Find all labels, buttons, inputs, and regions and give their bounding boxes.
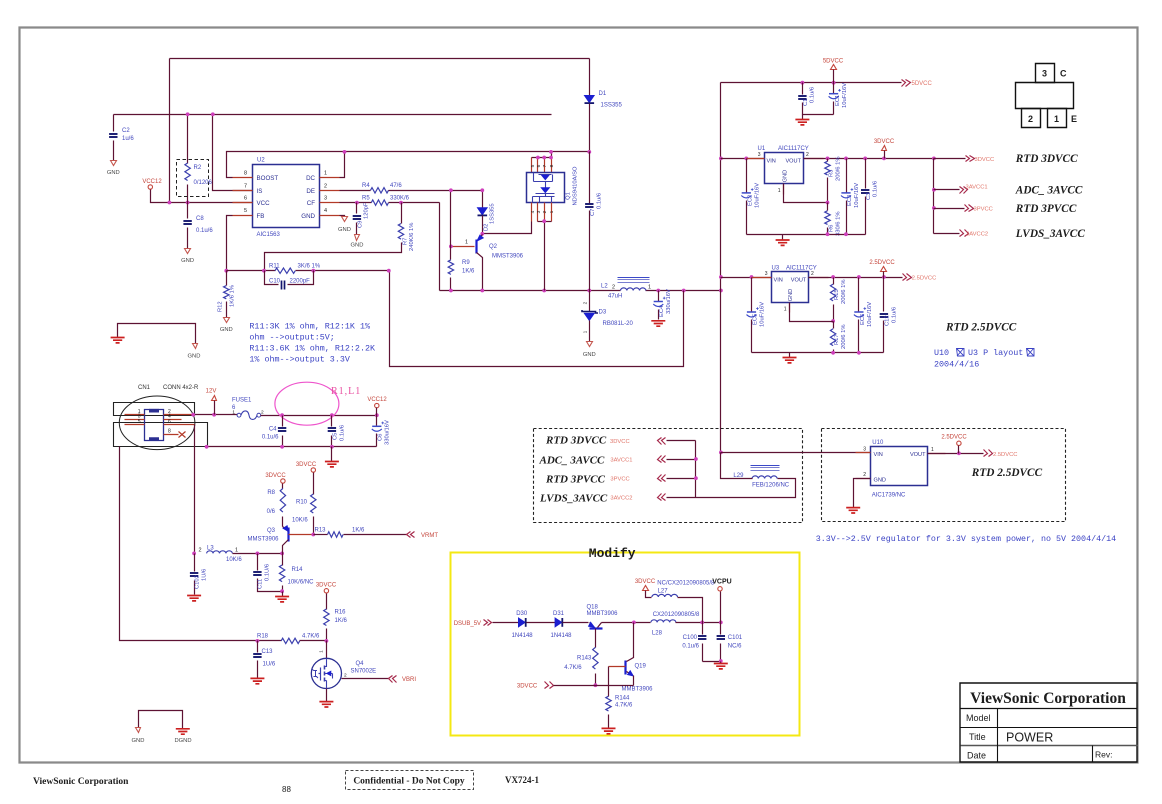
port 3DVCC out [934,156,995,163]
svg-text:3K/6 1%: 3K/6 1% [298,263,321,269]
svg-text:4: 4 [324,208,327,214]
svg-text:3.3V-->2.5V regulator for 3.3V: 3.3V-->2.5V regulator for 3.3V system po… [816,534,1116,544]
port 3AVCC1 out [934,184,988,193]
svg-text:R15: R15 [834,289,840,300]
transistor Q3 [248,526,314,554]
svg-text:0.1u/6: 0.1u/6 [682,644,699,650]
svg-text:RTD 3DVCC: RTD 3DVCC [545,435,607,447]
svg-text:ohm -->output:5V;: ohm -->output:5V; [249,333,334,343]
svg-text:L3: L3 [207,546,214,552]
svg-text:VCC12: VCC12 [367,397,387,403]
svg-text:3AVCC2: 3AVCC2 [610,496,632,502]
inductor L28 [651,612,723,637]
svg-text:VIN: VIN [767,158,776,164]
svg-text:7: 7 [542,164,548,167]
svg-text:FB: FB [257,213,265,220]
svg-text:8: 8 [168,429,171,435]
svg-text:EC5: EC5 [753,314,759,325]
svg-text:3DVCC: 3DVCC [265,473,286,479]
svg-text:VOUT: VOUT [910,452,926,458]
svg-text:2.5DVCC: 2.5DVCC [941,435,967,441]
svg-text:RTD 3DVCC: RTD 3DVCC [1015,153,1078,165]
resistor R17 [830,322,847,353]
note layout date [934,348,1034,370]
capacitor C4 [262,416,286,447]
wire fused 12V rail [261,415,377,417]
svg-text:10uF/16V: 10uF/16V [867,302,873,327]
svg-text:C4: C4 [269,427,277,433]
svg-text:2: 2 [863,472,866,478]
svg-text:R11: R11 [269,263,280,269]
svg-text:EC2: EC2 [748,195,754,206]
diode D31 [551,611,589,639]
ground earth at C5 rail [325,447,339,467]
svg-text:R3: R3 [829,170,835,177]
svg-text:C101: C101 [728,635,743,641]
capacitor EC3 [841,159,860,235]
mosfet Q1 NDS9410A/SO [527,150,579,291]
resistor R12 [218,271,236,318]
svg-text:C10: C10 [269,278,281,284]
svg-text:R6: R6 [829,225,835,232]
svg-text:5: 5 [244,208,247,214]
resistor R8 [267,484,286,527]
svg-text:ADC_ 3AVCC: ADC_ 3AVCC [1015,185,1083,197]
svg-text:R4: R4 [362,183,370,189]
inductor L27 [652,581,715,623]
svg-text:2: 2 [344,673,347,679]
port 2.5DVCC out U3 [903,274,937,282]
capacitor C11 [253,554,282,592]
svg-text:1: 1 [232,410,235,416]
svg-text:VCC: VCC [257,200,271,207]
svg-text:MMBT3906: MMBT3906 [587,611,619,617]
svg-text:BOOST: BOOST [257,175,279,182]
ic U3 AIC1117CY [752,266,829,313]
svg-text:ViewSonic Corporation: ViewSonic Corporation [33,777,129,787]
svg-text:200/6 1%: 200/6 1% [841,280,847,305]
svg-text:1N4148: 1N4148 [551,633,573,639]
svg-text:RTD 2.5DVCC: RTD 2.5DVCC [945,322,1017,334]
title block [960,683,1138,763]
resistor R6 [825,203,842,237]
ground GND at C9 [351,235,364,249]
svg-text:2: 2 [198,548,201,554]
svg-text:AIC1117CY: AIC1117CY [778,146,809,152]
svg-text:MMST3906: MMST3906 [248,537,280,543]
svg-text:R14: R14 [292,567,304,573]
svg-text:330u/16V: 330u/16V [666,289,672,314]
svg-text:1: 1 [549,210,555,213]
svg-text:ADC_ 3AVCC: ADC_ 3AVCC [539,455,606,467]
svg-text:3AVCC2: 3AVCC2 [966,231,988,237]
svg-text:RTD 2.5DVCC: RTD 2.5DVCC [971,467,1043,479]
power 2.5DVCC at U10 [941,435,967,454]
svg-text:R144: R144 [615,696,630,702]
svg-text:3DVCC: 3DVCC [296,462,317,468]
svg-text:1: 1 [582,330,588,333]
port VRMT [407,532,439,540]
svg-text:3DVCC: 3DVCC [635,579,656,585]
svg-text:GND: GND [583,352,596,358]
wire 12V feed [194,414,238,416]
svg-text:1N4148: 1N4148 [512,633,534,639]
svg-text:0.1u/6: 0.1u/6 [262,435,279,441]
svg-text:VIN: VIN [774,278,783,284]
svg-text:10K/6: 10K/6 [226,557,242,563]
svg-text:10K/6: 10K/6 [292,518,308,524]
svg-text:C3: C3 [866,193,872,200]
svg-text:200/6 1%: 200/6 1% [841,325,847,350]
svg-text:R10: R10 [296,500,308,506]
power 3DVCC at R8 [265,473,286,483]
capacitor C7 [585,152,602,291]
svg-text:Q3: Q3 [267,528,276,534]
svg-text:DSUB_5V: DSUB_5V [454,621,481,627]
svg-text:0.1u/6: 0.1u/6 [340,425,346,441]
capacitor C101 [717,623,743,662]
ground GND at R12 [220,318,233,334]
port 3AVCC1 in [610,456,695,464]
svg-text:2.5DVCC: 2.5DVCC [912,276,936,282]
confidential stamp [346,771,474,790]
port 2.5DVCC out U10 [984,450,1018,458]
power 3DVCC at L27 [635,579,656,598]
svg-text:DGND: DGND [174,738,191,744]
capacitor C3 [861,159,879,235]
note text output options [249,322,376,365]
capacitor C100 [682,623,706,662]
svg-text:R8: R8 [267,490,275,496]
svg-text:VX724-1: VX724-1 [505,775,539,785]
ground earth at C101 [714,662,728,669]
ground GND at C8 [181,249,194,265]
modify box [451,546,800,736]
wire output rail [440,290,621,292]
svg-text:C9: C9 [358,221,364,228]
svg-text:Q1: Q1 [566,192,572,200]
svg-text:GND: GND [132,738,145,744]
svg-text:3: 3 [324,196,327,202]
svg-text:C5: C5 [333,433,339,440]
port VBRI [389,676,417,684]
svg-text:C12: C12 [885,315,891,326]
svg-text:3PVCC: 3PVCC [974,207,993,213]
svg-text:8: 8 [549,164,555,167]
svg-text:2004/4/16: 2004/4/16 [934,360,979,370]
inductor L3 [192,546,284,563]
wire 3V distribution bus [933,159,935,234]
power VCPU [712,579,731,623]
wire L29 loop [696,479,796,498]
svg-text:1SS355: 1SS355 [601,103,623,109]
resistor R18 [256,634,329,644]
diode D2 [478,188,496,233]
svg-text:1U/6: 1U/6 [263,662,276,668]
diode D30 [512,611,556,639]
port 3AVCC2 out [934,230,989,238]
svg-text:D3: D3 [599,310,607,316]
svg-text:DC: DC [306,175,315,182]
capacitor C12 [880,278,898,353]
wire U1 gnd rail [747,234,866,236]
svg-text:3: 3 [1042,69,1047,79]
svg-text:1SS355: 1SS355 [490,203,496,224]
svg-text:EC4: EC4 [659,305,665,317]
svg-text:1K/6: 1K/6 [462,269,475,275]
mosfet Q4 SN7002E [311,641,388,708]
svg-text:AIC1563: AIC1563 [257,232,281,238]
svg-text:1K/6: 1K/6 [352,527,365,533]
svg-text:1K/6 1%: 1K/6 1% [230,285,236,307]
svg-text:R7: R7 [403,238,409,245]
svg-text:LVDS_3AVCC: LVDS_3AVCC [1015,228,1086,240]
resistor R144 [606,696,633,728]
wire U1 output rail [804,158,934,160]
svg-text:5DVCC: 5DVCC [912,81,933,87]
resistor R5 [340,195,440,205]
ground earth at R14 [275,592,289,602]
svg-text:0.1u/6: 0.1u/6 [873,181,879,197]
svg-text:CF: CF [307,200,315,207]
svg-text:330u/16V: 330u/16V [385,420,391,445]
port 5DVCC out [902,80,933,88]
svg-text:12V: 12V [206,389,217,395]
svg-text:Date: Date [967,751,986,761]
svg-text:U3 P layout: U3 P layout [968,348,1023,358]
svg-text:MMBT3906: MMBT3906 [622,687,654,693]
power 3DVCC at R10 [296,462,317,472]
ground GND at C2 [107,161,120,177]
svg-text:1: 1 [1054,114,1059,124]
svg-text:R11:3.6K 1% ohm, R12:2.2K: R11:3.6K 1% ohm, R12:2.2K [249,344,376,354]
power VCC12 [142,179,169,203]
transistor Q19 [609,623,654,697]
wire U3 gnd pin [790,303,834,322]
svg-text:4.7K/6: 4.7K/6 [302,634,320,640]
wire CN1 pin6 drop [194,425,196,554]
resistor R7 [265,203,416,271]
resistor R9 [448,188,475,290]
svg-text:VBRI: VBRI [402,677,416,683]
svg-text:8: 8 [244,171,247,177]
svg-text:R13: R13 [315,527,327,533]
svg-text:1: 1 [324,171,327,177]
svg-text:C102: C102 [195,575,201,589]
svg-text:C100: C100 [683,635,698,641]
svg-text:1% ohm-->output 3.3V: 1% ohm-->output 3.3V [249,355,350,365]
wire U10 output [928,453,984,455]
svg-text:GND: GND [788,289,794,301]
capacitor C5 [328,416,346,447]
wire CF to output rail [439,203,441,291]
svg-text:VCC12: VCC12 [142,179,162,185]
svg-text:2: 2 [324,183,327,189]
svg-text:2200pF: 2200pF [290,278,311,284]
svg-text:240K/6 1%: 240K/6 1% [409,223,415,251]
svg-text:NC/CX2012090805/8: NC/CX2012090805/8 [657,581,715,587]
ground earth at R144 [602,728,616,733]
svg-text:1: 1 [235,548,238,554]
svg-text:Modify: Modify [589,546,636,561]
svg-text:0.1u/6: 0.1u/6 [196,228,213,234]
resistor R13 [314,527,407,537]
wire 5V vertical bus [720,83,722,453]
svg-text:GND: GND [301,213,315,220]
capacitor C10 [265,271,314,290]
svg-text:C7: C7 [590,209,596,216]
svg-text:R17: R17 [834,334,840,345]
svg-text:10uF/16V: 10uF/16V [755,183,761,208]
svg-text:1u/6: 1u/6 [122,136,134,142]
svg-text:GND: GND [188,354,201,360]
svg-text:U2: U2 [257,158,265,164]
ground GND at D3 [583,342,596,359]
svg-text:Confidential - Do Not Copy: Confidential - Do Not Copy [353,777,465,787]
svg-text:Q4: Q4 [356,661,365,667]
capacitor C13 [250,641,275,684]
svg-text:2: 2 [612,285,615,291]
port 3PVCC out [934,205,993,213]
ground GND DGND tie [132,711,192,745]
svg-text:FUSE1: FUSE1 [232,398,252,404]
svg-text:330/6 1%: 330/6 1% [836,212,842,237]
svg-text:5: 5 [138,419,141,425]
svg-text:L28: L28 [652,631,663,637]
svg-text:3: 3 [758,152,761,158]
svg-text:2: 2 [811,271,814,277]
wire feedback loop [390,271,684,367]
svg-text:Q18: Q18 [587,605,599,611]
svg-text:3DVCC: 3DVCC [874,139,895,145]
svg-text:U10: U10 [872,440,884,446]
svg-text:NDS9410A/SO: NDS9410A/SO [573,166,579,205]
wire input tie bus [695,441,697,498]
port DSUB_5V in [454,620,519,628]
wire U3 gnd rail [752,352,884,354]
svg-text:0.1u/6: 0.1u/6 [810,87,816,103]
wire caps gnd tie [703,661,721,663]
svg-text:R12: R12 [218,301,224,312]
wire vertical to VCC line [169,59,171,203]
svg-text:Q2: Q2 [489,244,498,250]
svg-text:CONN 4x2-R: CONN 4x2-R [163,385,199,391]
wire Q18 rail [602,622,651,624]
wire VCC net [170,202,253,204]
capacitor C2 [109,115,134,161]
svg-text:POWER: POWER [1006,731,1053,745]
wire U1 input [721,158,765,160]
wire BOOST loop [227,152,590,178]
power 12V [206,389,217,415]
svg-text:4.7K/6: 4.7K/6 [564,665,582,671]
port 3DVCC in modify [517,682,634,690]
svg-text:2: 2 [582,301,588,304]
power 2.5DVCC at U3 [869,260,895,278]
wire CN1 left drop [120,447,282,641]
capacitor EC2 [741,159,760,235]
resistor R143 [564,647,598,687]
resistor R15 [830,278,847,323]
svg-text:IS: IS [257,188,263,195]
svg-text:MMST3906: MMST3906 [492,254,524,260]
svg-text:RTD 3PVCC: RTD 3PVCC [1015,203,1077,215]
svg-text:ViewSonic Corporation: ViewSonic Corporation [970,690,1126,707]
svg-text:D1: D1 [599,91,607,97]
ground earth at EC4 [651,321,665,326]
svg-text:0.1U/6: 0.1U/6 [265,564,271,581]
svg-text:GND: GND [220,327,233,333]
transistor Q2 [449,235,524,291]
svg-text:0.1u/6: 0.1u/6 [892,307,898,323]
svg-text:5DVCC: 5DVCC [823,59,844,65]
svg-text:U10: U10 [934,348,949,358]
capacitor C6 [372,416,391,447]
dashed box 2.5V regulator [822,429,1066,522]
svg-text:1U/6: 1U/6 [202,569,208,581]
svg-text:47uH: 47uH [608,294,622,300]
svg-text:Rev:: Rev: [1095,750,1112,760]
capacitor C1 [798,83,833,115]
wire U3 output rail [809,277,903,279]
fuse FUSE1 [232,398,264,420]
resistor R2 [177,112,213,202]
svg-text:R11:3K 1% ohm, R12:1K 1%: R11:3K 1% ohm, R12:1K 1% [249,322,371,332]
svg-text:0/6: 0/6 [267,509,276,515]
ground earth at U3 [783,353,797,363]
svg-text:2: 2 [261,410,264,416]
svg-text:GND: GND [107,170,120,176]
svg-text:7: 7 [244,183,247,189]
ground earth at U10 [846,508,860,513]
ground earth at C1 [795,115,809,125]
svg-text:2: 2 [1028,114,1033,124]
inductor L29 [721,453,790,489]
connector CN1 CONN 4x2-R [114,385,208,450]
power 5DVCC [823,59,844,83]
svg-text:EC6: EC6 [860,314,866,325]
svg-text:C8: C8 [196,216,204,222]
svg-text:VIN: VIN [874,452,883,458]
svg-text:R143: R143 [577,656,592,662]
wire 5DVCC rail [721,82,902,84]
capacitor EC1 [829,83,848,115]
resistor R10 [292,473,316,537]
svg-text:330K/6: 330K/6 [390,195,410,201]
svg-text:GND: GND [783,170,789,182]
svg-text:10K/6/NC: 10K/6/NC [288,580,315,586]
svg-text:10uF/16V: 10uF/16V [842,83,848,108]
svg-text:1K/6: 1K/6 [335,618,348,624]
svg-text:VOUT: VOUT [785,158,801,164]
svg-text:L27: L27 [658,588,669,594]
svg-text:88: 88 [282,785,291,794]
svg-text:10uF/16V: 10uF/16V [760,302,766,327]
resistor R4 [340,183,483,193]
svg-text:3DVCC: 3DVCC [610,439,630,445]
svg-text:5: 5 [530,164,536,167]
svg-text:U3: U3 [772,266,780,272]
svg-text:C1: C1 [803,99,809,106]
svg-text:C2: C2 [122,128,130,134]
svg-text:3: 3 [863,446,866,452]
svg-text:3DVCC: 3DVCC [517,684,538,690]
svg-text:VRMT: VRMT [421,533,438,539]
port 3PVCC in [610,475,695,483]
wire U10 input [721,452,871,454]
svg-text:3: 3 [765,271,768,277]
wire top rail [170,58,590,60]
